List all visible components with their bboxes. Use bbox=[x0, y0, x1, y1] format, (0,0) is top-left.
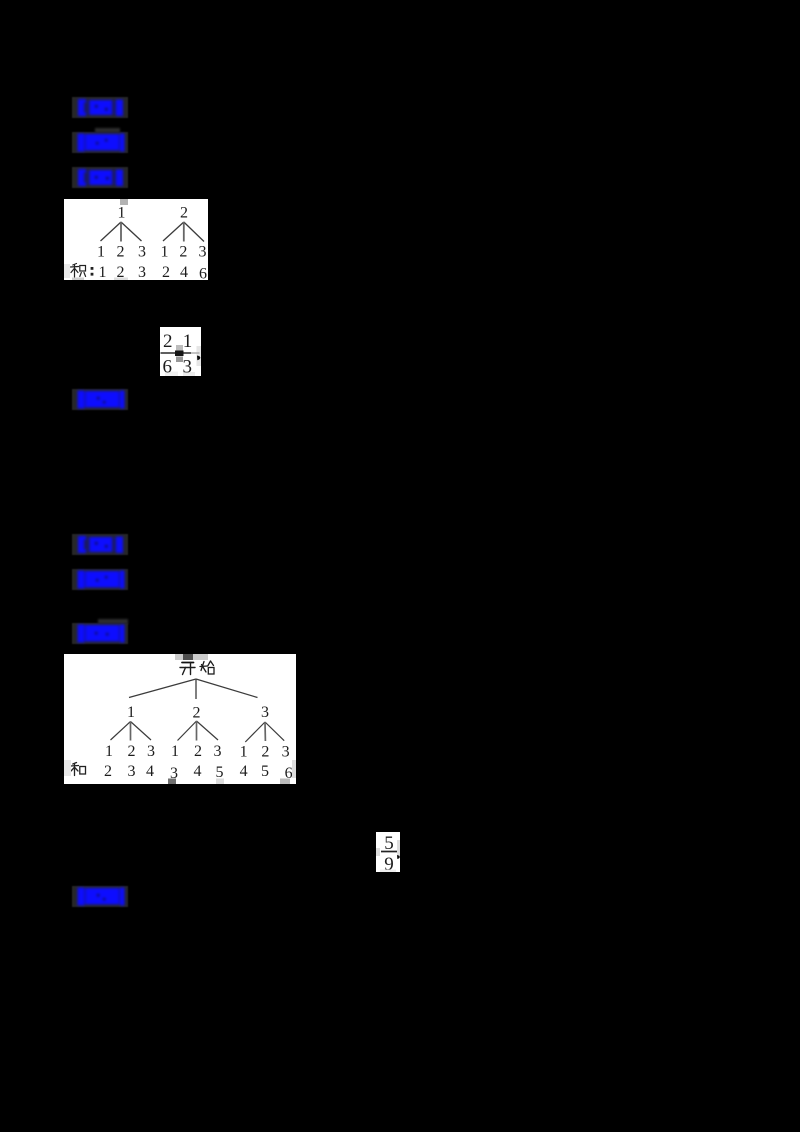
comma bbox=[397, 855, 400, 859]
tree B middle line bbox=[183, 222, 185, 242]
svg-text:1: 1 bbox=[240, 744, 248, 761]
svg-text:2: 2 bbox=[162, 264, 170, 280]
svg-text:1: 1 bbox=[161, 244, 169, 261]
bottom artifacts bbox=[165, 372, 178, 377]
svg-text:3: 3 bbox=[128, 763, 136, 780]
svg-text:2: 2 bbox=[104, 763, 112, 780]
svg-text:5: 5 bbox=[216, 764, 224, 781]
bottom artifacts bbox=[168, 779, 176, 785]
tree B fan lines bbox=[163, 222, 184, 241]
svg-text:3: 3 bbox=[282, 744, 290, 761]
left edge artifact bbox=[64, 760, 71, 776]
积 glyph bbox=[71, 264, 86, 278]
svg-text:9: 9 bbox=[384, 854, 394, 872]
fraction 1: 2/6 = 1/3 bbox=[160, 327, 201, 376]
big fan middle line bbox=[195, 679, 197, 699]
svg-text:3: 3 bbox=[138, 264, 146, 280]
svg-text:3: 3 bbox=[214, 743, 222, 760]
svg-text:2: 2 bbox=[128, 743, 136, 760]
svg-text:3: 3 bbox=[138, 244, 146, 261]
image 1: tree diagram (product) bbox=[64, 199, 208, 280]
svg-text:4: 4 bbox=[146, 763, 154, 780]
image 2: tree diagram (sum, 开始) bbox=[64, 654, 296, 784]
big fan left line bbox=[129, 679, 196, 698]
equals blob artifacts bbox=[176, 345, 183, 351]
tree A middle line bbox=[120, 222, 122, 242]
edge artifacts bbox=[376, 848, 380, 856]
header 解答 (blue label 3) bbox=[72, 167, 128, 188]
svg-text:2: 2 bbox=[194, 743, 202, 760]
fraction bars bbox=[161, 352, 192, 354]
svg-text:1: 1 bbox=[97, 244, 105, 261]
svg-text:2: 2 bbox=[193, 705, 201, 722]
svg-text:1: 1 bbox=[99, 264, 107, 280]
svg-text:3: 3 bbox=[261, 704, 269, 721]
svg-text:4: 4 bbox=[240, 763, 248, 780]
gray artifact top bbox=[120, 199, 128, 205]
small fan tree 3 bbox=[245, 722, 284, 742]
svg-text:1: 1 bbox=[105, 743, 113, 760]
svg-text:5: 5 bbox=[261, 763, 269, 780]
fraction 2: 5/9 bbox=[376, 832, 400, 872]
svg-text:4: 4 bbox=[180, 264, 188, 280]
artifact block above 分析 label bbox=[95, 128, 120, 133]
svg-text:3: 3 bbox=[147, 743, 155, 760]
fraction bar bbox=[381, 851, 397, 853]
svg-text:1: 1 bbox=[127, 704, 135, 721]
svg-text:2: 2 bbox=[261, 744, 269, 761]
header 考点 (blue label 1) bbox=[72, 97, 128, 118]
colon bbox=[91, 267, 94, 276]
svg-text:2: 2 bbox=[180, 205, 188, 222]
始 glyph bbox=[200, 661, 214, 674]
small fan tree 2 bbox=[178, 721, 219, 741]
big fan right line bbox=[196, 679, 258, 698]
small fan tree 1 bbox=[111, 722, 152, 741]
svg-text:1: 1 bbox=[118, 205, 126, 222]
svg-text:2: 2 bbox=[163, 331, 173, 352]
comma bbox=[197, 356, 200, 361]
bottom edge artifacts bbox=[64, 264, 70, 278]
svg-text:1: 1 bbox=[171, 743, 179, 760]
svg-text:2: 2 bbox=[179, 244, 187, 261]
和 glyph bbox=[71, 763, 86, 776]
top gray artifacts bbox=[175, 654, 208, 660]
svg-text:2: 2 bbox=[117, 244, 125, 261]
svg-text:3: 3 bbox=[199, 244, 207, 261]
开 glyph bbox=[180, 663, 195, 675]
header 点评 (blue label 4) bbox=[72, 389, 128, 410]
svg-text:3: 3 bbox=[183, 357, 193, 377]
header 解答 (blue label 7) bbox=[72, 623, 128, 644]
right edge artifact bbox=[197, 346, 202, 366]
tree A fan lines bbox=[101, 222, 122, 241]
svg-text:1: 1 bbox=[183, 331, 193, 352]
svg-text:6: 6 bbox=[163, 357, 173, 377]
header 分析 (blue label 6) bbox=[72, 569, 128, 590]
header 分析 (blue label 2) bbox=[72, 132, 128, 153]
header 点评 (blue label 8) bbox=[72, 886, 128, 907]
artifact block above 解答 label bbox=[98, 619, 128, 624]
svg-text:6: 6 bbox=[199, 266, 207, 281]
header 考点 (blue label 5) bbox=[72, 534, 128, 555]
svg-text:4: 4 bbox=[194, 763, 202, 780]
